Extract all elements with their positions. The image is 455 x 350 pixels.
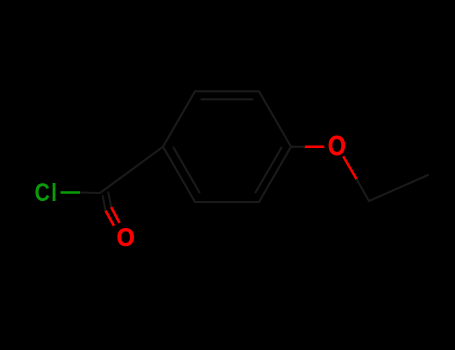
C=O double bond oxygen halves (red) [106, 207, 120, 226]
wire carbon skeleton (faint dark bonds) [80, 91, 428, 211]
svg-text:O: O [117, 224, 135, 252]
ring inner double bond top [202, 98, 253, 100]
benzene ring [163, 91, 291, 202]
C=O double bond carbon halves [103, 196, 106, 211]
ring inner double bond lower-right [256, 148, 282, 193]
svg-text:Cl: Cl [35, 178, 59, 206]
bond Cl-C chlorine half (green) [61, 191, 81, 193]
bond C(=O)-Cl carbon half [80, 191, 100, 194]
ring inner double bond lower-left [174, 148, 200, 193]
bond O-CH2 ethyl carbon half [357, 179, 370, 201]
bond ringC4-O carbon half [291, 146, 305, 148]
bond O-CH2 ethyl oxygen half (red) [343, 156, 356, 179]
bond ringC4-O oxygen half (red) [305, 146, 324, 149]
bond chain C(=O)-CH2-ring [100, 147, 163, 193]
bond CH2-CH3 ethyl [369, 175, 428, 201]
